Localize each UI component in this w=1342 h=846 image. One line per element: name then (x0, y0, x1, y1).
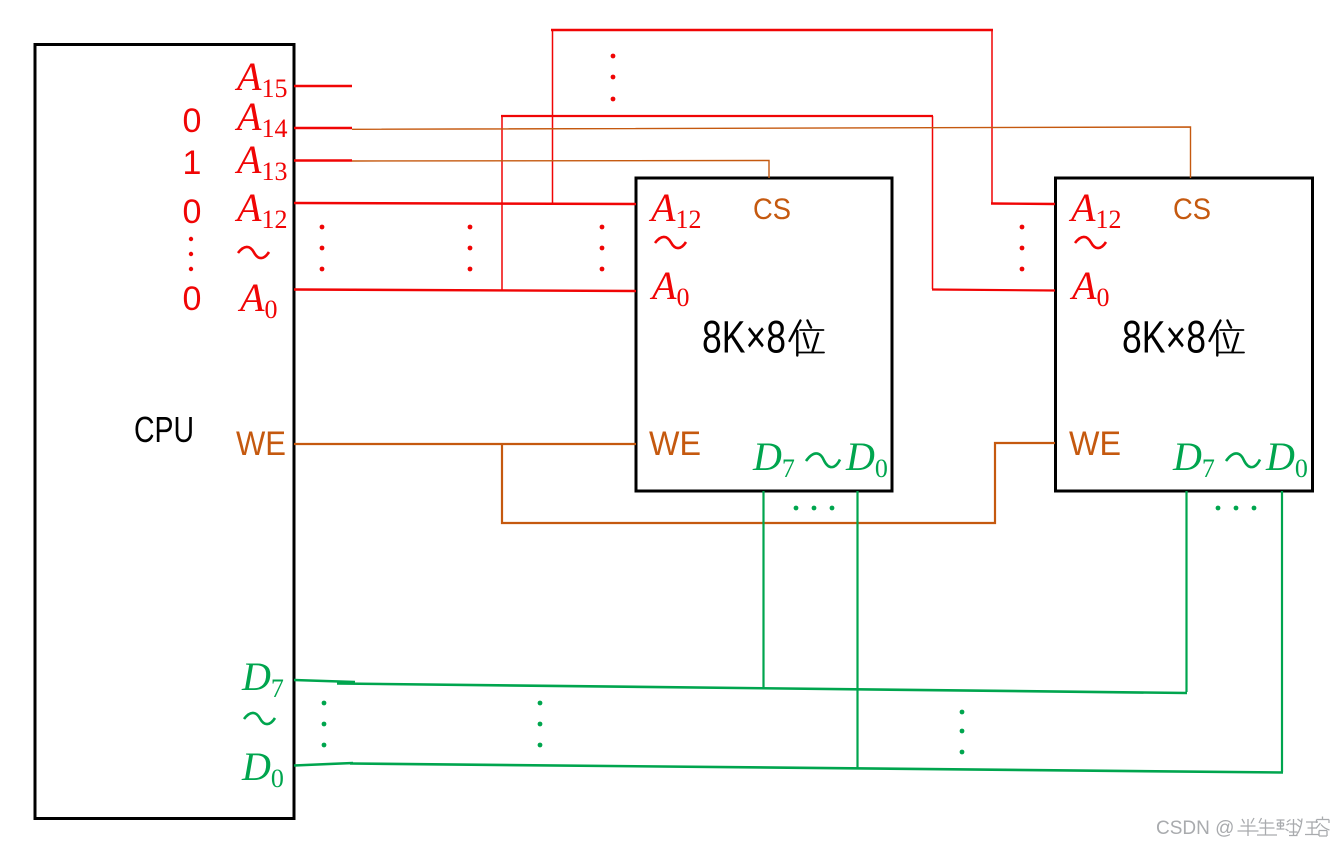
ellipsis top address rail (611, 54, 616, 102)
wire A12 branch riser (552, 30, 554, 204)
watermark handle glyphs (1238, 817, 1330, 837)
wire A14 stub (294, 127, 352, 130)
wire D0 stub (294, 763, 353, 766)
svg-text:0: 0 (183, 193, 202, 231)
svg-text:CPU: CPU (134, 409, 194, 450)
wire A13 stub (294, 159, 352, 162)
ellipsis CPU bit column (189, 237, 193, 271)
ellipsis U1 data pins (794, 506, 835, 511)
tilde U2 address (1075, 237, 1106, 248)
CPU box (35, 45, 294, 819)
tilde CPU data (244, 713, 275, 724)
ellipsis data bus col2 (538, 701, 543, 748)
tilde U1 address (655, 237, 686, 248)
wire A0 branch riser (501, 116, 503, 290)
wire A12 top rail (551, 29, 993, 31)
wire A0 into U2 (932, 290, 1055, 291)
glyph wei (U1) (790, 321, 825, 356)
wire A15 stub (294, 85, 352, 88)
wire A12 drop to U2 (991, 30, 993, 203)
svg-text:WE: WE (236, 425, 286, 463)
wire A0 top rail (501, 115, 933, 117)
wire U1 D7 drop (762, 491, 764, 689)
tilde CPU address (238, 247, 269, 258)
wire U2 D0 drop (1281, 491, 1283, 772)
svg-text:CS: CS (1173, 193, 1211, 226)
wire A12 into U2 (991, 202, 1055, 205)
ellipsis address bus col4 (1020, 225, 1025, 272)
wire CS U1 line from A13 (352, 161, 769, 179)
ellipsis data bus col3 (960, 710, 965, 755)
wire A12 bus CPU to U1 (294, 203, 636, 204)
ellipsis U2 data pins (1216, 506, 1257, 511)
ellipsis address bus col3 (600, 225, 605, 272)
wire D7 stub (294, 680, 355, 682)
svg-text:CSDN @: CSDN @ (1156, 818, 1234, 839)
memory chip U2 box (1056, 178, 1313, 491)
ellipsis address bus col2 (468, 225, 473, 272)
ellipsis address bus col1 (320, 225, 325, 272)
wire A0 bus CPU to U1 (294, 290, 636, 292)
svg-text:8K×8: 8K×8 (1122, 312, 1206, 363)
wire WE branch to U2 (502, 443, 1055, 523)
wire D7 bus (337, 684, 1187, 694)
ellipsis data bus col1 (322, 701, 327, 748)
wire U1 D0 drop (856, 491, 858, 768)
wire U2 D7 drop (1185, 491, 1187, 692)
svg-text:WE: WE (649, 425, 701, 463)
wire WE bus CPU to U1 (294, 443, 636, 445)
svg-text:0: 0 (183, 280, 202, 318)
memory chip U1 box (636, 178, 892, 491)
wire A0 drop to U2 (932, 116, 934, 289)
wire D0 bus (350, 764, 1283, 773)
svg-text:CS: CS (753, 193, 791, 226)
wire CS U2 line from A14 (352, 127, 1191, 178)
svg-text:8K×8: 8K×8 (702, 312, 786, 363)
svg-text:0: 0 (183, 102, 202, 140)
glyph wei (U2) (1210, 321, 1245, 356)
svg-text:1: 1 (183, 144, 202, 182)
svg-text:WE: WE (1069, 425, 1121, 463)
